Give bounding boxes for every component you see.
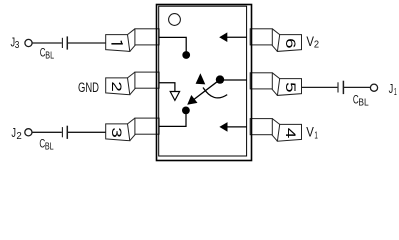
wire J2 to CBL <box>32 131 62 133</box>
wire pin 6 V2 <box>227 36 247 38</box>
switch pole dot <box>216 75 224 83</box>
terminal J3 <box>25 39 32 46</box>
svg-text:V: V <box>306 125 314 140</box>
svg-text:3: 3 <box>109 127 124 138</box>
wire pin 5 to CBL <box>302 86 338 88</box>
label CBL (J2) <box>39 139 54 153</box>
wire CBL to pin 1 <box>68 42 106 44</box>
label J3 <box>11 35 20 52</box>
switch motion arc <box>203 88 227 98</box>
svg-text:J: J <box>11 125 16 140</box>
node NO contact dot <box>182 107 190 115</box>
svg-text:4: 4 <box>283 128 298 139</box>
pin 2 <box>106 72 159 95</box>
terminal J2 <box>25 129 32 136</box>
svg-text:BL: BL <box>45 141 54 152</box>
pin 3 <box>106 118 159 141</box>
pin 4 <box>250 119 301 142</box>
pin 6 <box>250 29 301 52</box>
svg-text:2: 2 <box>16 131 21 142</box>
terminal J1 <box>370 84 377 91</box>
svg-text:5: 5 <box>283 82 298 93</box>
capacitor CBL (J3) <box>62 36 67 49</box>
svg-text:2: 2 <box>314 40 320 51</box>
switch pole line <box>193 81 219 101</box>
arrow V2 input <box>219 32 227 42</box>
svg-text:1: 1 <box>394 87 397 98</box>
IC body outer outline <box>157 5 252 161</box>
capacitor CBL (J1) <box>338 81 343 94</box>
switch motion arrowhead <box>196 73 206 84</box>
pin 1 indicator circle <box>169 14 181 26</box>
label J1 <box>389 81 397 98</box>
label CBL (J3) <box>40 48 55 62</box>
svg-text:1: 1 <box>314 130 318 141</box>
arrow V1 input <box>219 122 227 132</box>
svg-text:J: J <box>389 81 394 96</box>
label CBL (J1) <box>353 95 369 109</box>
wire CBL to J1 <box>344 86 370 88</box>
wire pin 2 GND <box>159 83 175 91</box>
label V1 <box>306 125 318 142</box>
pin 1 <box>106 29 159 52</box>
svg-text:V: V <box>306 34 314 49</box>
label V2 <box>306 34 319 51</box>
wire pin 1 to NC contact <box>159 37 187 54</box>
label J2 <box>11 125 21 142</box>
svg-text:6: 6 <box>283 38 298 49</box>
pin 5 <box>250 73 301 96</box>
wire J3 to CBL <box>32 42 62 44</box>
svg-text:2: 2 <box>109 81 124 91</box>
switch pole arrowhead <box>187 95 197 105</box>
node NC contact dot <box>182 51 190 59</box>
wire pin 3 to NO contact <box>159 111 186 126</box>
capacitor CBL (J2) <box>62 126 67 139</box>
wire pin 5 to pole <box>220 79 247 81</box>
svg-text:GND: GND <box>78 80 99 95</box>
svg-text:3: 3 <box>15 40 20 51</box>
ground arrow <box>170 92 179 101</box>
wire pin 4 V1 <box>227 126 247 128</box>
svg-text:BL: BL <box>358 97 369 108</box>
wire CBL to pin 3 <box>68 131 106 133</box>
IC body top face <box>159 6 247 156</box>
svg-text:BL: BL <box>45 50 54 61</box>
